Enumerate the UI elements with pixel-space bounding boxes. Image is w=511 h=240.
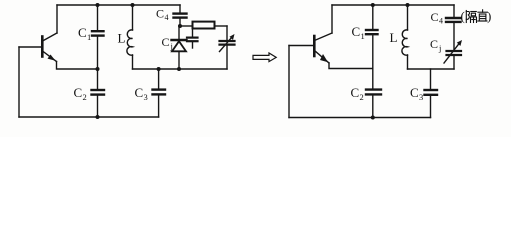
capacitor C2 bbox=[92, 69, 105, 117]
wire left vertical bbox=[18, 47, 20, 117]
svg-text:C: C bbox=[162, 35, 170, 49]
wire emitter to node bbox=[329, 63, 373, 69]
svg-text:3: 3 bbox=[419, 92, 423, 102]
inductor L1 bbox=[127, 5, 133, 69]
svg-text:2: 2 bbox=[83, 92, 87, 102]
svg-text:2: 2 bbox=[360, 92, 364, 102]
label L right bbox=[390, 30, 398, 45]
label C4 bbox=[156, 7, 169, 23]
inductor L right bbox=[402, 5, 408, 69]
label C3 bbox=[135, 85, 148, 102]
svg-text:C: C bbox=[430, 37, 438, 51]
svg-text:1: 1 bbox=[87, 32, 91, 42]
wire collector vertical Q2 bbox=[331, 5, 333, 33]
label L1 bbox=[118, 31, 126, 46]
wire top rail right circuit bbox=[332, 4, 454, 6]
arrow implies bbox=[253, 53, 276, 62]
svg-text:3: 3 bbox=[144, 92, 148, 102]
label C3 right bbox=[410, 85, 423, 102]
label C4 right bbox=[431, 10, 444, 26]
wire collector vertical Q1 bbox=[56, 5, 58, 33]
node dot C3 top bbox=[157, 67, 161, 71]
resistor R bbox=[193, 22, 215, 29]
wire base Q1 bbox=[19, 46, 42, 48]
wire top rail left circuit bbox=[57, 4, 180, 6]
svg-text:C: C bbox=[74, 85, 83, 100]
transistor Q2 bbox=[314, 33, 332, 63]
node dot top L right bbox=[406, 3, 410, 7]
svg-text:(: ( bbox=[461, 9, 465, 24]
wire base Q2 bbox=[289, 45, 314, 47]
capacitor C1 right bbox=[366, 5, 378, 69]
svg-text:): ) bbox=[487, 9, 491, 24]
node dot emitter A bbox=[96, 67, 100, 71]
svg-text:4: 4 bbox=[165, 13, 169, 22]
varactor diode Cj bbox=[172, 26, 187, 69]
label C1 bbox=[78, 25, 91, 42]
svg-text:C: C bbox=[351, 85, 360, 100]
svg-text:C: C bbox=[410, 85, 419, 100]
svg-text:4: 4 bbox=[439, 17, 443, 26]
node dot C2 bottom bbox=[96, 115, 100, 119]
svg-text:L: L bbox=[118, 31, 126, 46]
svg-text:L: L bbox=[390, 30, 398, 45]
transistor Q1 bbox=[42, 33, 57, 62]
capacitor C1 bbox=[92, 5, 104, 69]
svg-text:C: C bbox=[431, 10, 439, 24]
node dot top C1 right bbox=[371, 3, 375, 7]
node dot top L1 bbox=[131, 3, 135, 7]
node dot under C4 bbox=[178, 24, 182, 28]
wire R branch bbox=[180, 25, 193, 27]
svg-text:j: j bbox=[438, 43, 441, 53]
wire bottom rail right circuit bbox=[289, 117, 431, 119]
wire mid rail left circuit bbox=[133, 68, 228, 70]
annotation (隔直) bbox=[461, 9, 492, 24]
capacitor C2 right bbox=[366, 69, 381, 118]
wire left vertical right circuit bbox=[288, 46, 290, 118]
capacitor C3 right bbox=[425, 69, 438, 118]
wire emitter to node A bbox=[57, 62, 98, 70]
svg-text:1: 1 bbox=[361, 31, 365, 41]
capacitor C3 bbox=[153, 69, 166, 117]
svg-text:C: C bbox=[135, 85, 144, 100]
label Cj right bbox=[430, 37, 441, 53]
node dot diode bottom bbox=[177, 67, 181, 71]
capacitor beside diode bbox=[187, 26, 198, 48]
label C1 right bbox=[352, 24, 365, 41]
wire R to CT bbox=[215, 25, 228, 27]
svg-text:C: C bbox=[352, 24, 361, 39]
wire bottom rail left circuit bbox=[19, 116, 159, 118]
label C2 bbox=[74, 85, 87, 102]
capacitor C4 right bbox=[446, 5, 461, 51]
variable capacitor Cj right bbox=[444, 40, 462, 69]
glyph 隔 bbox=[466, 11, 476, 23]
label C2 right bbox=[351, 85, 364, 102]
wire mid rail right circuit bbox=[408, 68, 455, 70]
svg-text:C: C bbox=[156, 7, 164, 21]
node dot bottom C2 right bbox=[371, 116, 375, 120]
svg-text:j: j bbox=[170, 41, 173, 51]
glyph 直 bbox=[478, 10, 488, 21]
capacitor C4 bbox=[174, 5, 187, 26]
variable capacitor CT bbox=[220, 26, 235, 69]
svg-text:C: C bbox=[78, 25, 87, 40]
label Cj bbox=[162, 35, 173, 51]
node dot top C1 bbox=[96, 3, 100, 7]
